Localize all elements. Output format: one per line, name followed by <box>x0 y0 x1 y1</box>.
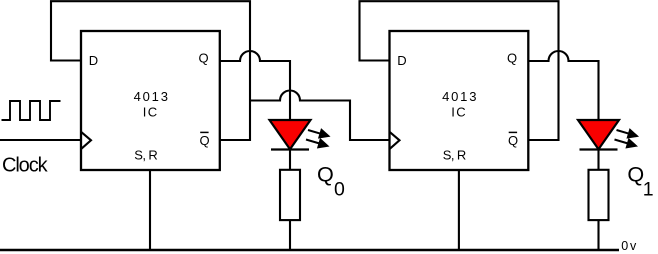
wire: S,R pin of U2 to 0v rail <box>458 170 460 250</box>
svg-text:Q: Q <box>317 161 334 186</box>
flip-flop U1 (4013 IC) box <box>81 31 220 170</box>
wire: S,R pin of U1 to 0v rail <box>149 170 151 250</box>
svg-text:IC: IC <box>143 105 159 120</box>
svg-text:Q: Q <box>507 51 517 66</box>
LED D2 light arrows <box>613 125 641 152</box>
wire: clock input to U1 <box>0 139 81 141</box>
svg-text:IC: IC <box>451 105 467 120</box>
LED D1 light arrows <box>304 125 332 152</box>
svg-text:0: 0 <box>334 179 345 201</box>
wire: branch to clock of U2 with hop over LED wire <box>250 91 390 141</box>
wire: Q-bar to D feedback loop of U1 <box>51 1 250 140</box>
svg-text:Q: Q <box>508 133 518 148</box>
svg-text:D: D <box>89 53 98 68</box>
wire: LED D2 cathode to resistor R2 <box>597 151 599 170</box>
svg-text:0v: 0v <box>621 239 638 253</box>
wire: LED D1 cathode to resistor R1 <box>289 151 291 170</box>
0v ground rail <box>0 249 619 252</box>
resistor R2 <box>589 170 609 220</box>
wire: R1 to 0v rail <box>289 220 291 250</box>
clock square-wave symbol <box>2 101 61 120</box>
resistor R1 <box>280 170 300 220</box>
svg-text:D: D <box>397 53 406 68</box>
svg-text:S, R: S, R <box>443 147 466 162</box>
svg-text:S, R: S, R <box>134 147 157 162</box>
clock-input triangle U1 <box>81 132 91 149</box>
svg-text:1: 1 <box>643 178 654 200</box>
flip-flop U2 (4013 IC) box <box>390 31 529 170</box>
svg-text:4013: 4013 <box>442 89 478 104</box>
wire: R2 to 0v rail <box>597 220 599 250</box>
wire: Q output of U2 with hop over feedback wire <box>528 51 598 119</box>
svg-text:4013: 4013 <box>134 89 170 104</box>
svg-text:Q: Q <box>627 161 644 186</box>
wire: Q-bar to D feedback loop of U2 <box>360 1 559 140</box>
svg-text:Q: Q <box>199 51 209 66</box>
LED D2 <box>578 120 619 150</box>
clock-input triangle U2 <box>390 132 400 149</box>
LED D1 <box>270 120 311 150</box>
wire: Q output of U1 with hop over feedback wire <box>220 51 290 119</box>
svg-text:Q: Q <box>200 133 210 148</box>
svg-text:Clock: Clock <box>2 155 49 177</box>
